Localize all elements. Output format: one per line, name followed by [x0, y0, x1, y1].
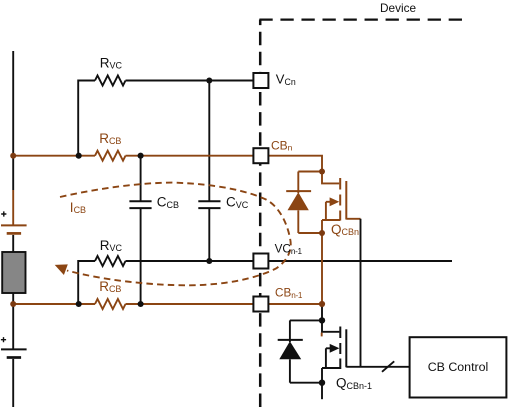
svg-text:CBn: CBn [271, 139, 293, 153]
svg-text:QCBn: QCBn [331, 222, 359, 237]
svg-text:RVC: RVC [100, 56, 123, 71]
svg-text:ICB: ICB [70, 200, 86, 215]
svg-text:RVC: RVC [100, 238, 123, 253]
svg-text:VCn-1: VCn-1 [275, 243, 303, 256]
svg-text:RCB: RCB [99, 131, 121, 146]
svg-text:CBn-1: CBn-1 [275, 287, 303, 300]
svg-text:CVC: CVC [226, 195, 249, 210]
svg-text:Device: Device [380, 1, 416, 15]
svg-text:QCBn-1: QCBn-1 [336, 376, 372, 391]
svg-text:CCB: CCB [157, 195, 179, 210]
svg-text:CB Control: CB Control [428, 360, 489, 374]
svg-text:VCn: VCn [276, 72, 296, 87]
